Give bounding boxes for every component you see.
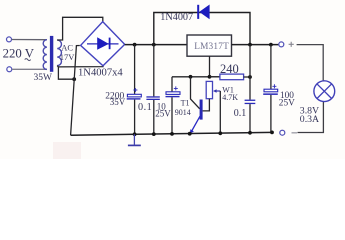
capacitor C3 10uF top lead [171,77,173,92]
node bottom rail / C2 [152,132,156,136]
node 240 right / output branch [248,75,252,79]
capacitor C1 bottom lead [134,100,136,135]
capacitor C1 top plate [127,94,141,97]
input terminal J1 (220V top) [7,37,12,42]
node output rail / 240 branch [248,43,252,47]
svg-text:1N4007x4: 1N4007x4 [78,68,123,79]
ADJ wire from LM317 [209,56,211,77]
svg-text:0.1: 0.1 [234,108,247,119]
label 220V~ [3,46,35,60]
ground [128,134,141,145]
wire secondary bottom to bridge AC2 [57,66,103,67]
svg-text:9014: 9014 [175,108,191,117]
output terminal + circle [279,42,284,47]
capacitor C5 plus mark [272,84,276,88]
potentiometer W1 wiper arrow [213,89,220,92]
transistor Q1 base wire from ADJ node [191,77,200,109]
svg-text:1N4007: 1N4007 [160,12,193,23]
wire wiper to bottom rail [219,91,221,133]
output rail (LM317 to + terminal) [232,44,279,46]
transistor Q1 collector wire from pot bottom [203,99,210,111]
svg-text:25V: 25V [279,99,295,109]
bridge rectifier B1 diamond [81,22,125,66]
node main rail / C1 [133,43,137,47]
wire + terminal to lamp top [297,45,324,81]
node bottom rail / T1 emitter [188,132,192,136]
wire bridge DC minus to bottom rail [71,46,80,136]
label + sign [289,42,294,47]
op-amp U1 LM317T box [187,35,232,56]
transformer secondary winding [57,40,61,66]
transformer core [50,36,53,72]
capacitor C2 bottom plate [146,99,159,100]
svg-text:0.1: 0.1 [138,102,152,113]
label - sign [292,132,298,133]
node bottom rail / C4 [248,131,252,135]
capacitor C5 100uF top lead [270,45,272,90]
capacitor C1 bottom plate [127,98,141,99]
protection diode D5 triangle [199,5,209,20]
capacitor C1 2200uF top lead [134,45,136,95]
svg-text:T1: T1 [181,98,190,107]
capacitor C3 plus mark [174,86,178,90]
capacitor C1 plus mark [133,88,137,92]
capacitor C4 bottom plate [245,103,256,104]
transistor Q1 base bar [200,100,203,120]
capacitor C2 top plate [146,96,159,97]
wire J2 to primary bottom [12,68,47,70]
bottom rail [71,132,272,135]
capacitor C3 top plate [166,92,180,95]
transformer T primary winding [43,40,47,70]
input terminal J2 (220V bottom) [7,67,12,72]
node output rail / C5 [269,43,273,47]
resistor R1 240 wire right [244,76,250,78]
capacitor C3 bottom lead [171,97,173,134]
svg-text:35W: 35W [34,73,53,83]
svg-text:4.7K: 4.7K [222,93,238,102]
protection diode D5 1N4007 cathode bar [197,5,199,19]
bridge internal diode cathode bar [109,38,111,50]
capacitor C3 bottom plate [166,96,180,97]
svg-text:17V: 17V [60,52,76,62]
node main rail / top diode branch [152,43,156,47]
output terminal - circle [280,130,285,135]
capacitor C5 top plate [264,89,278,92]
node ADJ / pot [208,75,212,79]
wire secondary bottom dogleg to minus line [58,67,74,79]
svg-text:35V: 35V [110,97,126,107]
node on DC minus line [72,77,76,81]
wire secondary top to bridge AC1 [57,17,103,40]
wire - terminal to lamp bottom [298,102,324,133]
lamp EL [314,81,335,102]
node bottom rail / W1 wiper [218,131,222,135]
capacitor C5 bottom lead [270,95,272,133]
svg-text:AC: AC [61,43,73,53]
bridge internal diode lead [87,43,119,45]
capacitor C5 bottom plate [263,93,278,95]
capacitor C2 0.1 lead (from top rail through main rail) [153,45,155,97]
potentiometer W1 body [206,81,212,98]
resistor R1 240 body [220,74,244,80]
bridge internal diode triangle [97,37,109,49]
capacitor C4 bottom lead [249,104,251,133]
capacitor C2 bottom lead [153,100,155,134]
node bottom rail / C5 and - terminal [270,131,274,135]
ADJ node wire run [172,76,220,78]
svg-text:LM317T: LM317T [194,42,229,52]
top rail with protection diode [154,13,250,45]
capacitor C4 0.1 top lead (output branch) [249,45,251,100]
node ADJ / T1 [189,75,193,79]
capacitor C4 top plate [245,100,256,101]
resistor R1 240 wire left [210,76,220,78]
svg-text:25V: 25V [155,109,171,119]
node bottom rail / C3 [170,132,174,136]
svg-text:240: 240 [220,62,239,76]
wire J1 to primary top [12,39,47,41]
main DC+ rail (bridge to LM317 input) [125,44,187,46]
node bottom rail / C1 and ground [133,132,137,136]
transistor Q1 emitter [190,116,200,134]
svg-text:0.3A: 0.3A [300,114,319,125]
svg-text:220 V: 220 V [3,46,35,60]
